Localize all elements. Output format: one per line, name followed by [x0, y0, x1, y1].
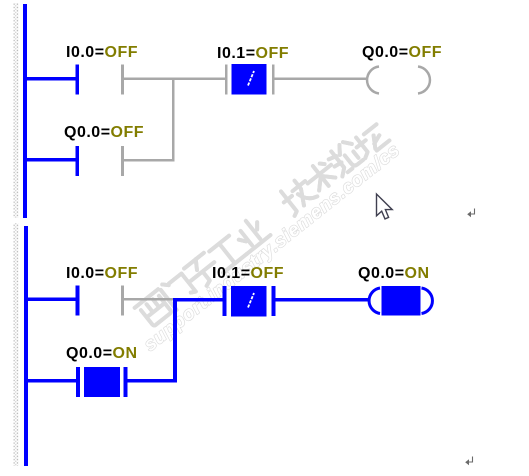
- contact I0.1 left leg (blue, network 2): [223, 286, 227, 316]
- svg-text:Q0.0=ON: Q0.0=ON: [358, 265, 430, 282]
- end-of-network return mark (network 2): [465, 457, 472, 466]
- line 1: simplified CJK glyph strokes (西门子工业 技术论坛): [134, 118, 389, 329]
- wire: contact I0.1 to coil Q0.0 (gray): [275, 78, 367, 81]
- 业: [231, 214, 271, 253]
- svg-text:I0.0=OFF: I0.0=OFF: [66, 44, 138, 61]
- 门: [159, 271, 198, 310]
- contact I0.1 NC selection box (blue): [232, 64, 267, 95]
- coil Q0.0 left paren (blue, network 2): [369, 288, 380, 314]
- 子: [182, 251, 223, 291]
- contact I0.0 left leg (blue): [76, 65, 80, 95]
- 论: [326, 139, 364, 177]
- left margin dither strip (network 1): [14, 3, 19, 218]
- branch contact Q0.0 right leg (blue, network 2): [124, 367, 128, 397]
- 工: [207, 234, 246, 272]
- branch contact Q0.0 left leg (blue, network 2): [76, 367, 80, 397]
- svg-text:I0.0=OFF: I0.0=OFF: [66, 265, 138, 282]
- svg-text:Q0.0=OFF: Q0.0=OFF: [362, 44, 442, 61]
- branch wire: rail to contact Q0.0 (blue, network 2): [28, 379, 76, 383]
- 西: [135, 289, 175, 328]
- coil Q0.0 energized fill box (network 2): [382, 286, 421, 316]
- wire: junction to contact I0.1 (blue, network 2): [177, 298, 223, 302]
- branch wire to junction (gray, network 1): [124, 159, 175, 162]
- 坛: [352, 123, 390, 160]
- svg-text:I0.1=OFF: I0.1=OFF: [217, 45, 289, 62]
- contact I0.0 left leg (blue, network 2): [76, 286, 80, 316]
- branch wire to junction (blue, network 2): [128, 379, 178, 383]
- contact I0.1 NC slash: [248, 71, 254, 86]
- svg-text:I0.1=OFF: I0.1=OFF: [212, 265, 284, 282]
- coil Q0.0 left paren (gray): [367, 67, 379, 94]
- branch contact Q0.0 left leg (blue): [76, 146, 80, 176]
- svg-text:Q0.0=ON: Q0.0=ON: [66, 345, 138, 362]
- power rail (network 2): [24, 226, 28, 466]
- branch wire: rail to contact Q0.0 (blue, network 1): [27, 158, 76, 162]
- end-of-network return mark (network 1): [467, 209, 474, 218]
- contact I0.0 right leg (gray, network 2): [121, 286, 124, 316]
- 技: [277, 176, 318, 216]
- coil Q0.0 right paren (blue, network 2): [422, 288, 433, 314]
- svg-text:Q0.0=OFF: Q0.0=OFF: [64, 124, 144, 141]
- branch contact Q0.0 energized box (network 2): [84, 367, 120, 397]
- wire: rail to contact I0.0 (energized blue): [27, 77, 76, 81]
- branch junction vertical wire (blue, network 2): [173, 298, 177, 382]
- contact I0.1 right leg (blue, network 2): [272, 286, 276, 316]
- 术: [301, 157, 340, 195]
- wire: contact I0.1 to coil (blue, network 2): [276, 298, 369, 302]
- wire: rail to contact I0.0 (blue, network 2): [28, 298, 76, 302]
- coil Q0.0 right paren (gray): [418, 67, 430, 94]
- power rail (network 1): [23, 4, 27, 218]
- left margin dither strip (network 2): [14, 223, 19, 466]
- contact I0.1 NC selection box (blue, network 2): [231, 286, 267, 317]
- branch junction vertical wire (gray, network 1): [172, 79, 175, 161]
- contact I0.1 NC slash (network 2): [248, 293, 254, 308]
- mouse cursor: [377, 194, 393, 219]
- watermark: [122, 117, 404, 356]
- wire: contact I0.0 to contact I0.1 (gray): [124, 78, 226, 81]
- wire: contact I0.0 to junction (gray, network 2): [124, 298, 173, 301]
- contact I0.1 left leg (gray): [225, 65, 228, 95]
- contact I0.0 right leg (gray): [121, 65, 124, 95]
- contact I0.1 right leg (gray): [272, 65, 275, 95]
- branch contact Q0.0 right leg (gray): [121, 146, 124, 176]
